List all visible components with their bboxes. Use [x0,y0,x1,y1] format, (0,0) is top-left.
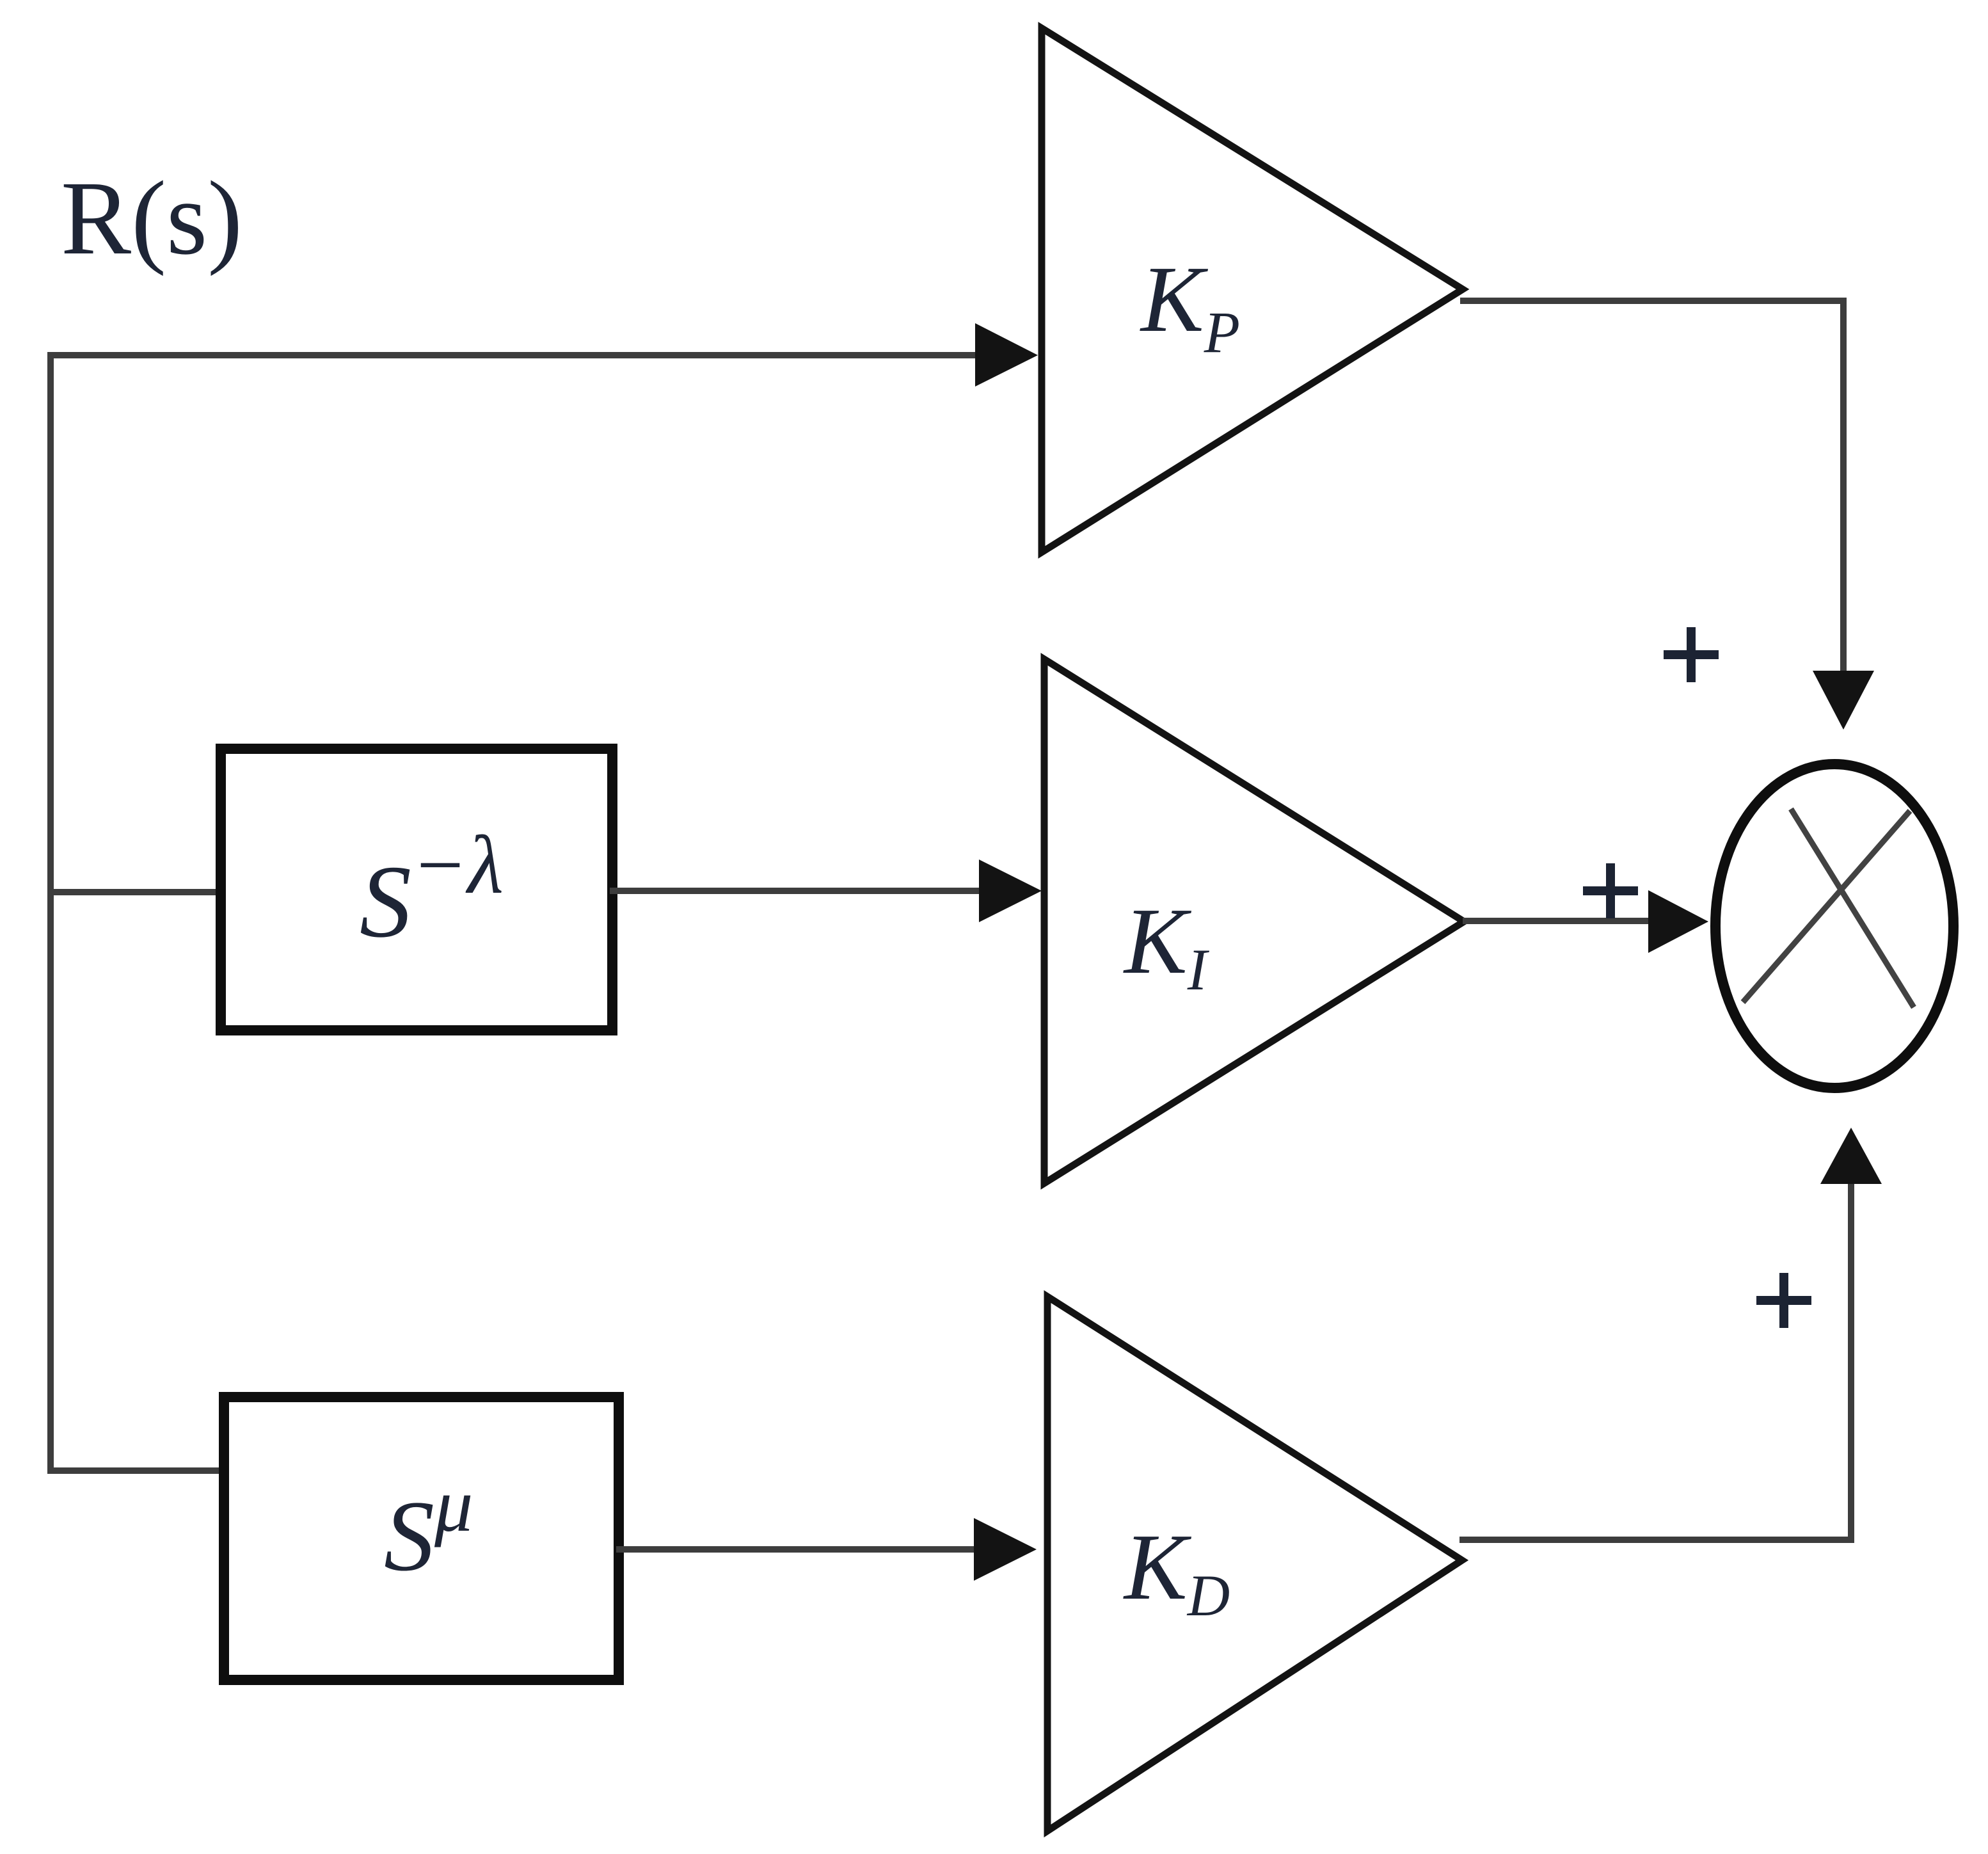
summing junction circle [1715,764,1953,1088]
op-amp gain KI triangle [1044,659,1464,1183]
arrowhead into summing junction left [1648,890,1708,953]
arrowhead into KP [975,323,1038,387]
wire middle branch to integrator box [51,889,224,895]
plus sign bottom input [1756,1273,1811,1328]
svg-text:R(s): R(s) [61,159,243,276]
wire KI output into summing junction [1463,918,1652,924]
plus sign left input [1583,863,1638,918]
op-amp gain KP triangle [1042,28,1463,552]
wire derivative box output to KD [616,1546,978,1553]
wire left vertical bus from R(s) down to derivative branch [47,352,54,1471]
block S^mu derivative box [224,1397,619,1680]
wire integrator box output to KI [610,888,983,894]
wire bottom branch to derivative box [47,1467,227,1474]
plus sign top input [1664,627,1719,682]
summing junction X mark [1743,809,1914,1007]
arrowhead down into summing junction [1813,671,1874,730]
arrowhead up into summing junction bottom [1820,1128,1882,1184]
op-amp gain KD triangle [1047,1297,1462,1831]
wire KP output to summing junction (right then down) [1460,301,1843,675]
arrowhead into KD [974,1518,1037,1581]
wire KD output to summing junction (right then up) [1459,1183,1851,1540]
arrowhead into KI [979,859,1042,922]
wire top branch horizontal to KP [47,352,979,358]
block S^-lambda integrator box [221,749,612,1030]
